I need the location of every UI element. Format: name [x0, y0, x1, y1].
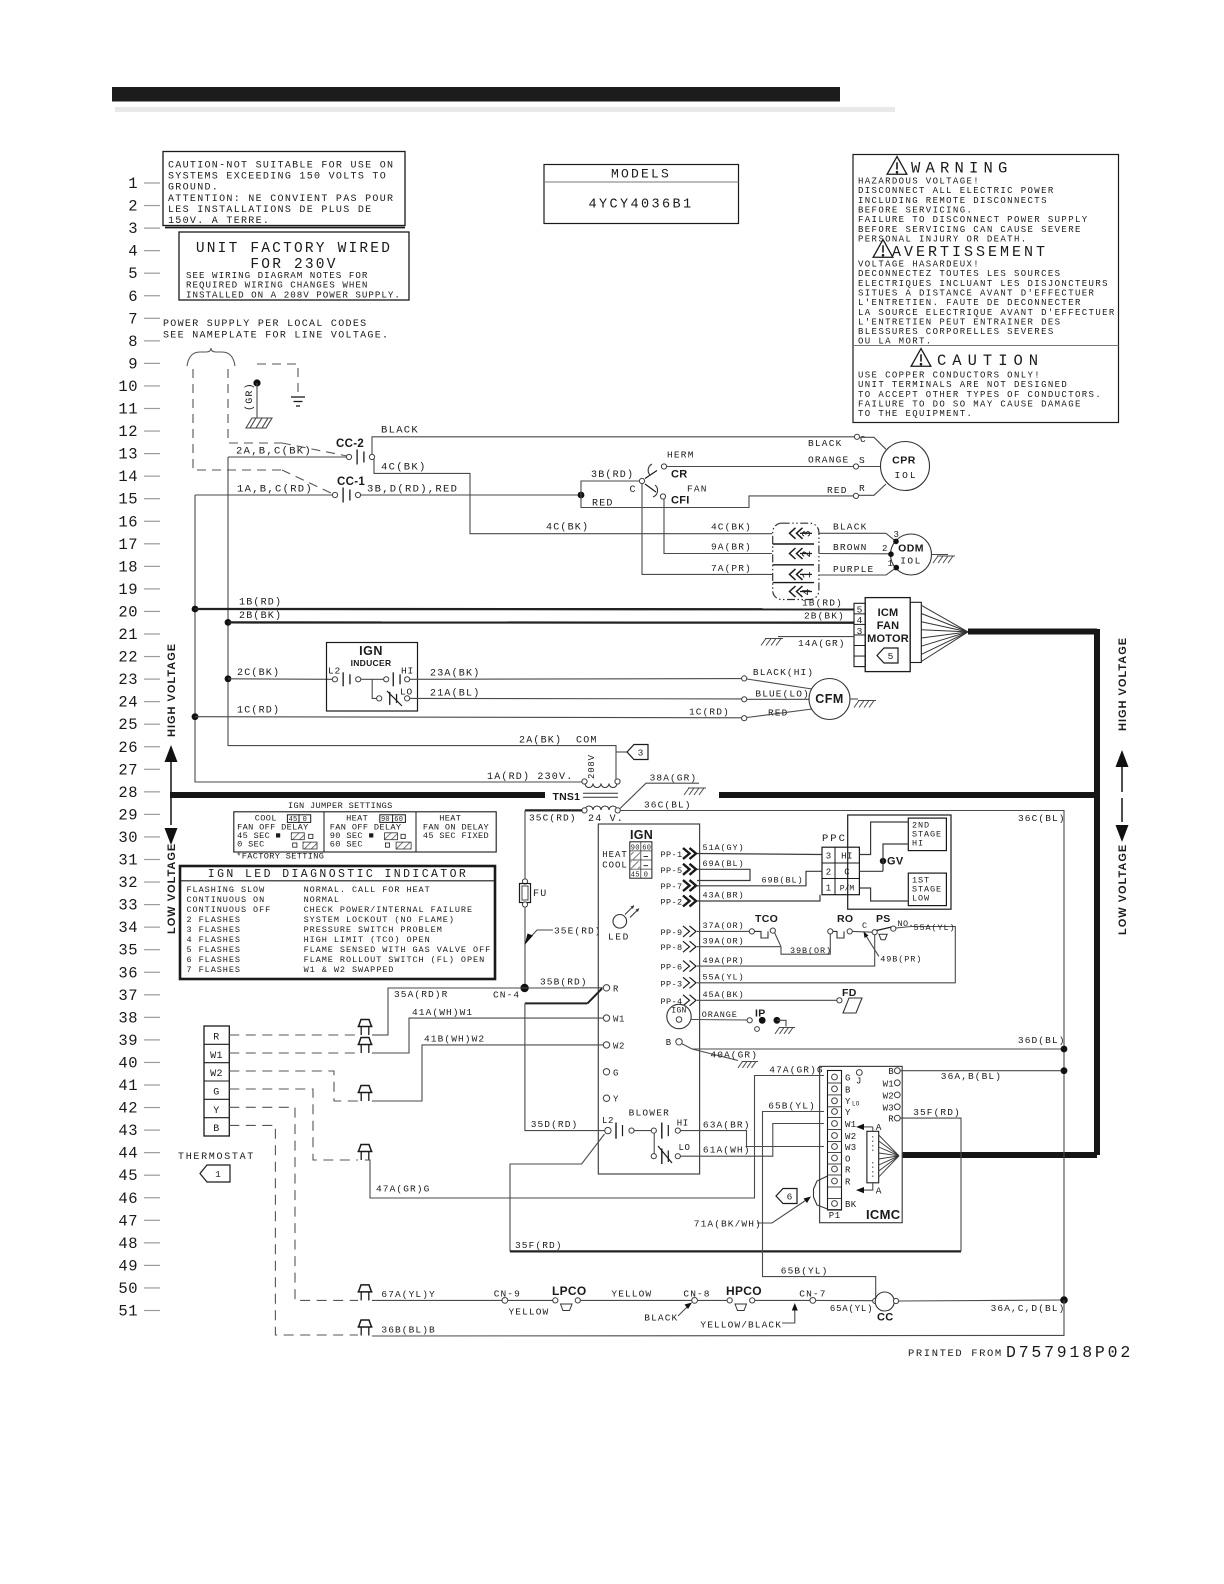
svg-text:3: 3	[638, 748, 644, 759]
wire 41A(WH)W1	[372, 1018, 603, 1053]
P1 bracket	[814, 1176, 828, 1209]
svg-text:35A(RD)R: 35A(RD)R	[394, 989, 448, 1000]
svg-text:CAUTION: CAUTION	[937, 352, 1044, 370]
svg-text:55A(YL): 55A(YL)	[703, 973, 745, 983]
svg-text:BLACK: BLACK	[381, 425, 419, 437]
svg-text:14A(GR): 14A(GR)	[798, 638, 846, 649]
svg-text:W2: W2	[883, 1091, 894, 1101]
svg-text:3: 3	[826, 852, 831, 862]
splice bump G	[358, 1145, 373, 1152]
svg-text:65A(YL): 65A(YL)	[830, 1304, 873, 1314]
svg-text:36C(BL): 36C(BL)	[644, 800, 692, 811]
svg-text:S: S	[859, 455, 865, 466]
svg-text:2: 2	[801, 551, 814, 558]
svg-text:PURPLE: PURPLE	[833, 564, 874, 575]
IGN jumper settings table	[234, 801, 496, 862]
svg-text:LPCO: LPCO	[552, 1284, 587, 1298]
ICMC terminal strip	[828, 1071, 842, 1211]
svg-text:L'ENTRETIEN PEUT ENTRAINER DES: L'ENTRETIEN PEUT ENTRAINER DES	[858, 317, 1061, 327]
IGN LED diagnostic indicator table	[180, 866, 495, 979]
svg-text:Y: Y	[845, 1097, 851, 1107]
svg-text:IGN LED DIAGNOSTIC INDICATOR: IGN LED DIAGNOSTIC INDICATOR	[208, 868, 468, 881]
svg-text:LED: LED	[608, 932, 630, 943]
svg-text:WARNING: WARNING	[911, 160, 1013, 178]
svg-text:W3: W3	[883, 1103, 894, 1113]
svg-text:G: G	[845, 1074, 851, 1084]
svg-text:TO ACCEPT OTHER TYPES OF CONDU: TO ACCEPT OTHER TYPES OF CONDUCTORS.	[858, 390, 1102, 400]
wire 67A(YL)Y to CN-9	[372, 1299, 502, 1301]
gas valve 2nd stage box	[908, 818, 946, 851]
note flag 1	[200, 1165, 230, 1182]
svg-text:LOW: LOW	[912, 894, 930, 904]
svg-text:28: 28	[118, 784, 138, 802]
svg-text:15: 15	[118, 491, 138, 509]
wire 2C(BK)	[228, 678, 333, 681]
fuse FU	[522, 879, 527, 884]
svg-text:R: R	[213, 1033, 219, 1044]
svg-text:LO: LO	[679, 1143, 691, 1153]
svg-text:4: 4	[857, 615, 863, 626]
compressor contactor coil CC	[873, 1298, 878, 1303]
svg-text:45 SEC FIXED: 45 SEC FIXED	[423, 831, 489, 841]
svg-text:45A(BK): 45A(BK)	[703, 990, 745, 1000]
svg-text:4C(BK): 4C(BK)	[381, 462, 427, 474]
svg-text:W3: W3	[845, 1143, 856, 1153]
thermostat terminal block	[204, 1026, 229, 1136]
inducer box IGN INDUCER	[327, 643, 418, 712]
svg-text:4C(BK): 4C(BK)	[546, 522, 589, 534]
wire BLACK to CPR C	[372, 437, 855, 454]
wire 1A,B,C(RD)	[195, 494, 332, 496]
note flag 5	[877, 648, 898, 663]
svg-text:UNIT FACTORY WIRED: UNIT FACTORY WIRED	[196, 241, 392, 257]
field power supply brace	[187, 348, 235, 366]
spark igniter IGN	[667, 1004, 691, 1028]
svg-text:FD: FD	[842, 987, 857, 999]
TCO output diagonal to 39A	[775, 933, 782, 947]
svg-text:2: 2	[882, 544, 887, 554]
svg-text:C: C	[860, 434, 866, 445]
note flag 6	[776, 1189, 797, 1204]
svg-text:Y: Y	[613, 1095, 619, 1105]
plug pin 1	[790, 569, 803, 580]
IGN heat/cool jumper block	[630, 842, 652, 880]
svg-text:CFM: CFM	[815, 692, 844, 706]
(GR) junction dot	[253, 379, 260, 386]
svg-text:BLACK: BLACK	[833, 522, 868, 533]
svg-text:69A(BL): 69A(BL)	[703, 859, 745, 869]
wire 35C(RD)	[525, 809, 582, 811]
trunk wire x=228 (BK leg)	[228, 457, 616, 779]
svg-text:9A(BR): 9A(BR)	[711, 542, 752, 553]
svg-text:CN-8: CN-8	[683, 1289, 710, 1300]
wire CC to trunk 36A,C,D(BL)	[899, 1300, 1064, 1301]
svg-text:CAUTION-NOT SUITABLE FOR USE O: CAUTION-NOT SUITABLE FOR USE ON	[168, 161, 394, 172]
svg-text:21: 21	[118, 626, 138, 644]
wire RED jog to CPR R	[581, 495, 854, 508]
svg-text:HPCO: HPCO	[726, 1284, 762, 1298]
svg-text:69B(BL): 69B(BL)	[762, 876, 804, 886]
svg-text:BLACK: BLACK	[808, 438, 843, 449]
svg-text:G: G	[213, 1087, 219, 1098]
svg-text:2A(BK): 2A(BK)	[519, 735, 562, 747]
svg-text:THERMOSTAT: THERMOSTAT	[178, 1152, 255, 1163]
wire 51A(GY) PP-1 to PPC 3	[697, 854, 822, 855]
relay contact CFI (fan)	[645, 484, 656, 492]
svg-text:INCLUDING REMOTE DISCONNECTS: INCLUDING REMOTE DISCONNECTS	[858, 196, 1048, 206]
svg-text:2: 2	[128, 198, 138, 216]
gas valve GV outer box	[848, 815, 951, 909]
svg-text:5 FLASHES: 5 FLASHES	[187, 945, 241, 955]
svg-text:60: 60	[642, 844, 651, 852]
35E(RD) leader with arrow	[527, 930, 553, 941]
svg-text:40: 40	[118, 1054, 138, 1072]
connector CN-8	[692, 1298, 698, 1304]
wire BLACK plug to ODM 3	[819, 533, 896, 541]
svg-text:D757918P02: D757918P02	[1006, 1343, 1133, 1362]
svg-text:BLOWER: BLOWER	[629, 1108, 670, 1119]
wire 3B,D(RD),RED	[361, 494, 581, 496]
svg-text:90: 90	[631, 844, 640, 852]
svg-text:FAILURE TO DO SO MAY CAUSE DAM: FAILURE TO DO SO MAY CAUSE DAMAGE	[858, 399, 1082, 409]
svg-text:7A(PR): 7A(PR)	[711, 563, 752, 574]
junction CN-4	[520, 984, 528, 992]
svg-text:Y: Y	[845, 1108, 851, 1118]
svg-text:R: R	[613, 984, 619, 994]
dashed run B	[229, 1125, 358, 1335]
svg-text:37: 37	[118, 987, 138, 1005]
svg-text:13: 13	[118, 446, 138, 464]
svg-text:SYSTEMS EXCEEDING 150 VOLTS TO: SYSTEMS EXCEEDING 150 VOLTS TO	[168, 172, 387, 183]
wire CR common to 7A(PR)	[642, 484, 772, 574]
power supply note	[163, 319, 389, 342]
svg-text:CONTINUOUS OFF: CONTINUOUS OFF	[187, 905, 272, 915]
svg-text:8: 8	[128, 333, 138, 351]
svg-text:PP-3: PP-3	[661, 979, 683, 989]
wire ORANGE CR to CPR S	[667, 466, 854, 468]
wire ORANGE to spark gap	[691, 1019, 747, 1022]
trunk wire x=195 (RD leg)	[195, 495, 582, 782]
IGN terminal Y	[603, 1095, 609, 1101]
svg-text:LA SOURCE ELECTRIQUE AVANT D'E: LA SOURCE ELECTRIQUE AVANT D'EFFECTUER	[858, 308, 1116, 318]
IGN terminal W2	[603, 1042, 609, 1048]
wire 45A(BK) PP-4 to FD	[697, 999, 837, 1001]
wire CFI to 9A(BR)	[664, 499, 772, 554]
wire 49A(PR) PP-6 to PS common	[697, 935, 875, 966]
compressor motor CPR IOL	[854, 434, 859, 439]
field wiring dashed L1 run	[193, 369, 282, 470]
(GR) wire to chassis ground	[256, 383, 258, 418]
wire 36D(BL) IGN B to trunk	[676, 1039, 682, 1045]
svg-text:CC: CC	[877, 1312, 894, 1324]
svg-text:MOTOR: MOTOR	[867, 633, 909, 645]
svg-text:R: R	[859, 483, 865, 494]
svg-text:PP-1: PP-1	[661, 850, 683, 860]
svg-text:OU LA MORT.: OU LA MORT.	[858, 337, 933, 347]
svg-text:0: 0	[644, 871, 648, 879]
svg-text:1C(RD): 1C(RD)	[237, 705, 280, 717]
svg-text:26: 26	[118, 739, 138, 757]
svg-text:1B(RD): 1B(RD)	[802, 598, 843, 609]
wire 1C(RD)	[195, 717, 742, 718]
svg-text:2B(BK): 2B(BK)	[804, 611, 845, 622]
svg-text:FLAME ROLLOUT SWITCH (FL) OPEN: FLAME ROLLOUT SWITCH (FL) OPEN	[304, 955, 486, 965]
svg-text:L'ENTRETIEN. FAUTE DE DECONNEC: L'ENTRETIEN. FAUTE DE DECONNECTER	[858, 298, 1082, 308]
svg-text:35E(RD): 35E(RD)	[554, 926, 602, 937]
svg-text:48: 48	[118, 1235, 138, 1253]
svg-text:FLASHING SLOW: FLASHING SLOW	[187, 885, 266, 895]
svg-text:25: 25	[118, 716, 138, 734]
svg-text:2A,B,C(BK): 2A,B,C(BK)	[236, 446, 312, 458]
svg-text:HAZARDOUS VOLTAGE!: HAZARDOUS VOLTAGE!	[858, 177, 980, 187]
svg-text:ICM: ICM	[878, 607, 899, 619]
svg-text:VOLTAGE HASARDEUX!: VOLTAGE HASARDEUX!	[858, 260, 980, 270]
svg-text:4: 4	[801, 589, 814, 596]
svg-text:39B(OR): 39B(OR)	[790, 946, 832, 956]
svg-text:IOL: IOL	[894, 470, 917, 481]
svg-text:P/M: P/M	[840, 885, 855, 894]
svg-text:63A(BR): 63A(BR)	[703, 1120, 751, 1131]
svg-text:PRINTED FROM: PRINTED FROM	[908, 1348, 1003, 1360]
svg-text:W2: W2	[613, 1041, 625, 1051]
svg-text:INDUCER: INDUCER	[351, 658, 392, 668]
wire PPC HI to 2nd stage	[859, 822, 908, 855]
svg-text:47A(GR)G: 47A(GR)G	[376, 1184, 430, 1195]
wire PURPLE plug to ODM 1	[819, 568, 896, 575]
svg-text:39: 39	[118, 1032, 138, 1050]
svg-text:NORMAL. CALL FOR HEAT: NORMAL. CALL FOR HEAT	[304, 885, 431, 895]
wire 36C(BL) trunk	[620, 811, 1064, 1301]
blower contact A	[615, 1123, 617, 1139]
wire 37A(OR) PP-9 to TCO	[697, 930, 749, 932]
splice bump Y	[358, 1285, 373, 1292]
svg-text:HEAT: HEAT	[602, 850, 628, 860]
svg-text:41: 41	[118, 1077, 138, 1095]
svg-text:10: 10	[118, 378, 138, 396]
note flag 3	[616, 751, 627, 753]
svg-text:FAN: FAN	[877, 620, 900, 632]
ICM fan motor block	[865, 598, 910, 672]
svg-text:A: A	[876, 1122, 882, 1133]
svg-text:P1: P1	[829, 1211, 841, 1221]
wire 35A(RD)R toward thermostat R	[372, 988, 525, 1035]
svg-text:CHECK POWER/INTERNAL FAILURE: CHECK POWER/INTERNAL FAILURE	[304, 905, 473, 915]
wire 2A,B,C(BK)	[228, 456, 346, 458]
svg-text:B: B	[888, 1067, 894, 1077]
svg-text:38A(GR): 38A(GR)	[650, 773, 698, 784]
splice bump B	[358, 1320, 373, 1327]
svg-text:42: 42	[118, 1100, 138, 1118]
svg-text:CN-7: CN-7	[799, 1289, 826, 1300]
svg-text:ATTENTION: NE CONVIENT PAS POU: ATTENTION: NE CONVIENT PAS POUR	[168, 194, 394, 205]
svg-text:FU: FU	[533, 889, 547, 900]
svg-text:ICMC: ICMC	[866, 1207, 901, 1222]
wire 23A(BK)	[410, 678, 742, 681]
svg-text:BLACK(HI): BLACK(HI)	[753, 667, 814, 678]
wire 14A(GR) with chassis ground	[778, 636, 854, 638]
svg-text:5: 5	[857, 605, 863, 616]
plug pin 4	[790, 586, 803, 597]
furnace control board IGN box	[598, 824, 699, 1174]
svg-text:61A(WH): 61A(WH)	[703, 1145, 751, 1156]
svg-text:6 FLASHES: 6 FLASHES	[187, 955, 241, 965]
svg-text:IGN: IGN	[630, 828, 653, 842]
svg-text:COM: COM	[576, 736, 598, 747]
svg-text:34: 34	[118, 919, 138, 937]
svg-text:40A(GR): 40A(GR)	[710, 1050, 758, 1061]
svg-text:BROWN: BROWN	[833, 542, 868, 553]
svg-text:0 SEC: 0 SEC	[237, 840, 265, 850]
svg-text:LO: LO	[400, 687, 413, 698]
svg-text:BLACK: BLACK	[644, 1313, 678, 1324]
svg-text:3: 3	[857, 626, 863, 637]
CFM chassis ground	[850, 698, 858, 700]
svg-text:2C(BK): 2C(BK)	[237, 667, 280, 679]
svg-text:PS: PS	[876, 913, 891, 925]
svg-text:BEFORE SERVICING CAN CAUSE SEV: BEFORE SERVICING CAN CAUSE SEVERE	[858, 225, 1082, 235]
svg-text:USE COPPER CONDUCTORS ONLY!: USE COPPER CONDUCTORS ONLY!	[858, 371, 1041, 381]
svg-text:LOW VOLTAGE: LOW VOLTAGE	[166, 843, 178, 934]
svg-text:208V: 208V	[587, 754, 597, 779]
wire 4C(BK) to plug pin 3	[374, 459, 772, 534]
svg-text:4: 4	[128, 243, 138, 261]
svg-text:C: C	[862, 921, 867, 931]
blower contact HI	[651, 1128, 656, 1133]
svg-text:65B(YL): 65B(YL)	[768, 1101, 816, 1112]
wire 38A(GR) to chassis ground	[620, 783, 699, 808]
junction dot 2C	[225, 675, 232, 682]
svg-text:J: J	[856, 1077, 862, 1087]
svg-text:FAN: FAN	[687, 484, 708, 495]
plug pin 2	[790, 548, 803, 559]
splice bump W2	[358, 1086, 373, 1093]
svg-text:G: G	[613, 1068, 619, 1078]
svg-text:W1: W1	[210, 1051, 223, 1062]
svg-text:2: 2	[826, 868, 831, 878]
svg-text:1: 1	[888, 559, 893, 569]
wire 55A(YL) PS to PP-3 loop	[697, 927, 955, 983]
A reference arrows	[860, 1126, 873, 1128]
svg-text:RO: RO	[837, 913, 853, 925]
junction dot 1C	[192, 713, 199, 720]
svg-text:4C(BK): 4C(BK)	[711, 522, 752, 533]
svg-text:35: 35	[118, 942, 138, 960]
svg-text:RED: RED	[827, 485, 848, 496]
svg-text:29: 29	[118, 806, 138, 824]
svg-text:TNS1: TNS1	[553, 791, 581, 803]
wire 35F(RD) blower L2 to ICMC R relay	[510, 1134, 605, 1251]
wire 3B(RD) to CR common	[581, 481, 639, 495]
svg-text:55A(YL): 55A(YL)	[914, 923, 956, 933]
svg-text:46: 46	[118, 1190, 138, 1208]
svg-text:UNIT TERMINALS ARE NOT DESIGNE: UNIT TERMINALS ARE NOT DESIGNED	[858, 380, 1068, 390]
svg-text:14: 14	[118, 468, 138, 486]
svg-text:39A(OR): 39A(OR)	[703, 937, 745, 947]
wire 39A(OR) PP-8	[697, 946, 781, 948]
svg-text:27: 27	[118, 761, 138, 779]
svg-text:W1: W1	[613, 1015, 625, 1025]
outdoor motor ODM IOL	[891, 534, 932, 575]
svg-text:L2: L2	[602, 1116, 614, 1126]
svg-text:PP-6: PP-6	[661, 963, 683, 973]
svg-text:SYSTEM LOCKOUT (NO FLAME): SYSTEM LOCKOUT (NO FLAME)	[304, 915, 455, 925]
svg-text:23: 23	[118, 671, 138, 689]
svg-text:HERM: HERM	[667, 450, 695, 461]
svg-text:C: C	[630, 485, 637, 496]
svg-text:W1: W1	[845, 1120, 856, 1130]
svg-text:CPR: CPR	[892, 455, 916, 467]
svg-text:51: 51	[118, 1303, 138, 1321]
svg-text:BLESSURES CORPORELLES SEVERES: BLESSURES CORPORELLES SEVERES	[858, 327, 1055, 337]
svg-text:CFI: CFI	[671, 495, 690, 507]
wire RO to PS common	[852, 930, 872, 933]
top title bar	[112, 87, 840, 102]
svg-text:4YCY4036B1: 4YCY4036B1	[588, 198, 693, 213]
svg-text:47: 47	[118, 1212, 138, 1230]
svg-text:HI: HI	[912, 839, 924, 849]
svg-text:36: 36	[118, 964, 138, 982]
svg-text:L2: L2	[328, 666, 341, 677]
svg-text:41B(WH)W2: 41B(WH)W2	[424, 1034, 485, 1045]
svg-text:ORANGE: ORANGE	[808, 455, 849, 466]
svg-text:65B(YL): 65B(YL)	[781, 1266, 829, 1277]
svg-text:50: 50	[118, 1280, 138, 1298]
svg-text:44: 44	[118, 1145, 138, 1163]
svg-text:CN-9: CN-9	[494, 1289, 521, 1300]
svg-text:IGN: IGN	[671, 1007, 686, 1016]
ICMC board box	[820, 1066, 903, 1222]
IGN terminal G	[603, 1069, 609, 1075]
svg-text:CONTINUOUS ON: CONTINUOUS ON	[187, 895, 266, 905]
svg-text:4 FLASHES: 4 FLASHES	[187, 935, 241, 945]
svg-text:37A(OR): 37A(OR)	[703, 921, 745, 931]
svg-text:35C(RD): 35C(RD)	[529, 813, 577, 824]
svg-text:1A(RD) 230V.: 1A(RD) 230V.	[487, 771, 573, 783]
svg-text:HIGH LIMIT (TCO) OPEN: HIGH LIMIT (TCO) OPEN	[304, 935, 431, 945]
ICM terminal strip 5/4/3	[854, 603, 865, 666]
svg-text:B: B	[666, 1038, 672, 1048]
svg-text:3B(RD): 3B(RD)	[591, 469, 634, 481]
svg-text:23A(BK): 23A(BK)	[430, 668, 480, 680]
svg-text:1A,B,C(RD): 1A,B,C(RD)	[237, 484, 313, 496]
svg-text:PP-7: PP-7	[661, 882, 683, 892]
svg-text:6: 6	[128, 288, 138, 306]
svg-text:(GR): (GR)	[244, 382, 256, 411]
svg-text:45: 45	[631, 871, 640, 879]
svg-text:32: 32	[118, 874, 138, 892]
svg-text:33: 33	[118, 897, 138, 915]
svg-text:W2: W2	[845, 1132, 856, 1142]
plug pin 3	[790, 528, 803, 539]
svg-text:R: R	[845, 1178, 851, 1188]
wire 65B(YL) ICMC Y to CC	[763, 1112, 876, 1299]
svg-text:B: B	[213, 1124, 219, 1135]
svg-text:20: 20	[118, 603, 138, 621]
svg-text:51A(GY): 51A(GY)	[703, 843, 745, 853]
junction node RED	[578, 492, 585, 499]
IGN terminal W1	[603, 1015, 609, 1021]
svg-text:19: 19	[118, 581, 138, 599]
wire 43A(BR) PP-2 to PPC 1	[697, 895, 820, 901]
svg-text:7 FLASHES: 7 FLASHES	[187, 965, 241, 975]
connector CN-7	[810, 1298, 816, 1304]
svg-text:1: 1	[128, 175, 138, 193]
svg-text:IGN: IGN	[359, 644, 383, 658]
wire PPC P/M to 1st stage	[859, 888, 908, 901]
field wiring dashed L1 diagonal	[282, 470, 333, 494]
svg-text:24: 24	[118, 694, 138, 712]
svg-text:49A(PR): 49A(PR)	[703, 956, 745, 966]
